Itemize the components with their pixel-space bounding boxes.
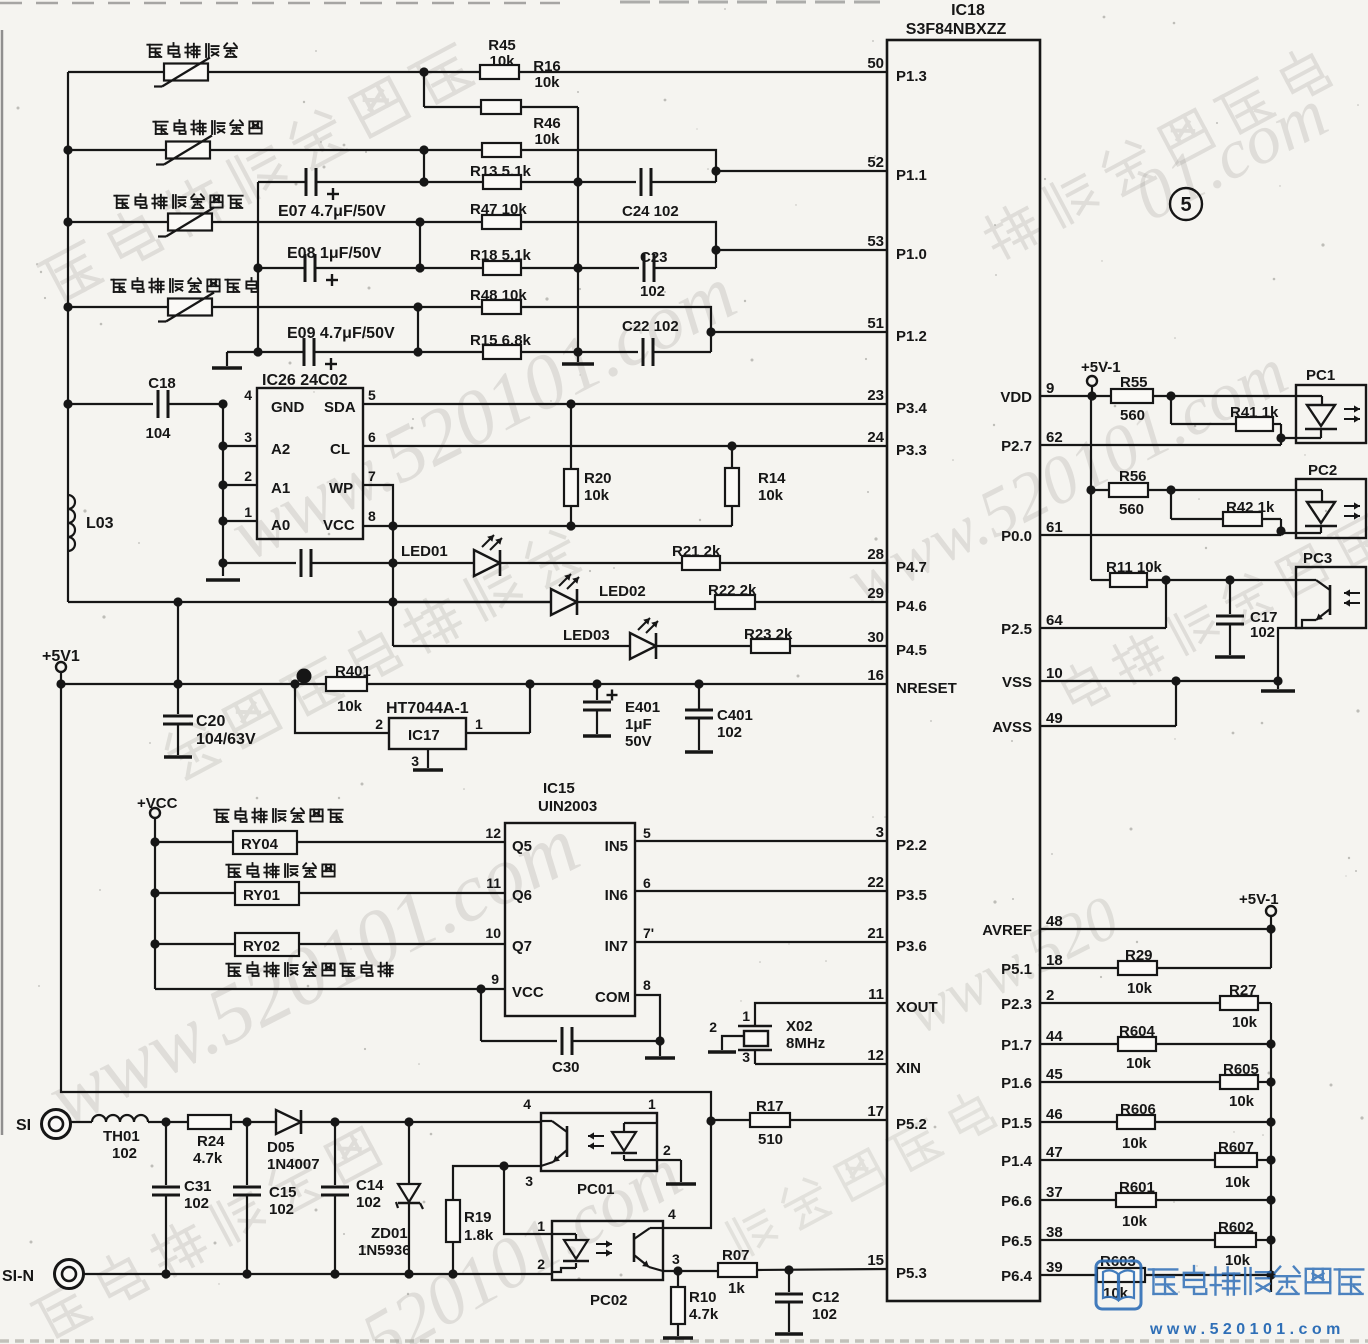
inductor L03 (68, 495, 75, 551)
svg-text:R23 2k: R23 2k (744, 626, 793, 643)
resistor R23 (656, 645, 751, 647)
svg-text:10k: 10k (1232, 1014, 1258, 1031)
PC01 LED (624, 1122, 657, 1124)
resistor R14 pullup (731, 446, 733, 468)
svg-text:C20: C20 (196, 713, 225, 730)
svg-text:11: 11 (868, 986, 884, 1003)
wire VDD row (1040, 395, 1322, 397)
svg-text:7': 7' (643, 925, 654, 941)
svg-text:PC01: PC01 (577, 1181, 615, 1198)
label sensor4 压缩机排气口温度 (111, 280, 125, 292)
PC01 phototransistor (541, 1120, 552, 1122)
svg-text:RY02: RY02 (243, 938, 280, 955)
label sensor3 冷凝器出口温度 (114, 196, 128, 208)
svg-text:R45: R45 (488, 37, 516, 54)
svg-text:R601: R601 (1119, 1179, 1155, 1196)
blue watermark logo (1096, 1261, 1141, 1309)
svg-text:10: 10 (485, 925, 501, 941)
node ZD01 top (404, 1117, 413, 1126)
svg-text:NRESET: NRESET (896, 680, 957, 697)
resistor R15 (418, 351, 483, 353)
wire VSS row (1040, 680, 1278, 682)
svg-text:IN7: IN7 (605, 938, 628, 955)
IC18 S3F84NBXZZ MCU box (887, 40, 1040, 1301)
svg-text:560: 560 (1119, 501, 1144, 518)
svg-text:LED01: LED01 (401, 543, 448, 560)
IC15 ULN2003 box (505, 823, 635, 1016)
svg-text:4: 4 (523, 1096, 531, 1112)
svg-text:UIN2003: UIN2003 (538, 798, 597, 815)
capacitor C17 102 (1229, 580, 1231, 614)
svg-text:Q7: Q7 (512, 938, 532, 955)
resistor R10 4.7k (677, 1271, 679, 1287)
crystal X02 8MHz (738, 1025, 772, 1028)
node R55 right (1166, 391, 1175, 400)
svg-text:w w w . 5 2 0 1 0 1 . c o m: w w w . 5 2 0 1 0 1 . c o m (1149, 1321, 1340, 1338)
svg-text:3: 3 (525, 1173, 533, 1189)
svg-text:VSS: VSS (1002, 674, 1032, 691)
resistor R47 (482, 215, 521, 229)
svg-text:C23: C23 (640, 249, 668, 266)
wire VCC to IC15 pin9 (155, 988, 505, 990)
wire node2 down (423, 150, 425, 182)
svg-text:1: 1 (648, 1096, 656, 1112)
svg-text:WP: WP (329, 480, 353, 497)
wire row4 (68, 306, 168, 308)
svg-text:16: 16 (867, 667, 884, 684)
wire SDA row to P3.4 (363, 403, 887, 405)
label 室外风机继电器 (214, 810, 228, 822)
resistor R17 (711, 1119, 750, 1121)
wire R22 to pin29 (755, 601, 887, 603)
wire R47 right to pin53 corner (521, 222, 716, 268)
label 换向阀继电器 (226, 865, 240, 877)
wire E-cap common vertical (257, 182, 259, 352)
svg-text:4: 4 (668, 1206, 676, 1222)
svg-text:XOUT: XOUT (896, 999, 938, 1016)
wire pin53 row (716, 249, 887, 251)
svg-text:5: 5 (643, 825, 651, 841)
svg-text:102: 102 (640, 283, 665, 300)
PC2 emission arrows (1344, 505, 1360, 507)
svg-text:P1.3: P1.3 (896, 68, 927, 85)
svg-text:TH01: TH01 (103, 1128, 140, 1145)
resistor R24 (188, 1115, 231, 1129)
svg-text:A1: A1 (271, 480, 290, 497)
svg-text:Q6: Q6 (512, 887, 532, 904)
svg-text:SI-N: SI-N (2, 1268, 34, 1285)
node R56 right (1148, 489, 1322, 491)
wire R45 to pin50 (519, 71, 887, 73)
svg-text:1: 1 (742, 1008, 750, 1024)
wire P2.5 row (1040, 627, 1166, 629)
svg-text:P1.5: P1.5 (1001, 1115, 1032, 1132)
wire R21 to pin28 (720, 562, 887, 564)
circled number 5 sheet mark (1170, 188, 1202, 220)
capacitor E401 (592, 679, 601, 688)
svg-text:P3.4: P3.4 (896, 400, 928, 417)
svg-text:C31: C31 (184, 1178, 212, 1195)
svg-text:2: 2 (244, 468, 252, 484)
svg-text:R605: R605 (1223, 1061, 1259, 1078)
svg-text:10k: 10k (534, 131, 560, 148)
wire P2.7 row (1040, 444, 1281, 446)
node PC2 cathode (1280, 519, 1282, 535)
node R17/PC01 junction (706, 1116, 715, 1125)
svg-text:P3.3: P3.3 (896, 442, 927, 459)
wire R56 row (1086, 485, 1095, 494)
svg-text:P3.5: P3.5 (896, 887, 927, 904)
svg-text:C401: C401 (717, 707, 753, 724)
svg-text:53: 53 (867, 233, 884, 250)
svg-text:P2.2: P2.2 (896, 837, 927, 854)
node row3 (415, 217, 424, 226)
svg-text:10k: 10k (758, 487, 784, 504)
svg-text:L03: L03 (86, 515, 114, 532)
svg-text:R47 10k: R47 10k (470, 201, 527, 218)
svg-text:37: 37 (1046, 1184, 1063, 1201)
svg-text:P1.2: P1.2 (896, 328, 927, 345)
svg-text:CL: CL (330, 441, 350, 458)
svg-text:3: 3 (742, 1049, 750, 1065)
svg-text:P0.0: P0.0 (1001, 528, 1032, 545)
nodes on SI-N row (161, 1269, 170, 1278)
wire P0.0 row (1040, 534, 1281, 536)
svg-text:62: 62 (1046, 429, 1063, 446)
wire +5V1 rail down-left and across bottom (61, 684, 711, 1228)
resistor R41 1k (1170, 396, 1172, 424)
blue watermark 家电维修资料网 (1149, 1269, 1178, 1293)
svg-text:30: 30 (867, 629, 884, 646)
svg-text:P5.2: P5.2 (896, 1116, 927, 1133)
wire RY04 to Q5 (297, 841, 505, 843)
svg-text:4.7k: 4.7k (193, 1150, 223, 1167)
resistor R48 (482, 300, 521, 314)
svg-text:R11 10k: R11 10k (1106, 559, 1163, 576)
svg-text:1.8k: 1.8k (464, 1227, 494, 1244)
svg-text:6: 6 (368, 429, 376, 445)
wire P6.6 row / resistor R601 (1040, 1199, 1116, 1201)
svg-text:R19: R19 (464, 1209, 492, 1226)
wire AVREF row (1040, 928, 1271, 930)
svg-text:C30: C30 (552, 1059, 580, 1076)
crystal pin2 ground (722, 1036, 744, 1050)
svg-text:P1.7: P1.7 (1001, 1037, 1032, 1054)
node pin51 (706, 327, 715, 336)
svg-text:R606: R606 (1120, 1101, 1156, 1118)
resistor R56 560 (1109, 483, 1148, 497)
svg-text:10k: 10k (584, 487, 610, 504)
capacitor C15 (246, 1122, 248, 1185)
svg-text:28: 28 (867, 546, 884, 563)
svg-text:15: 15 (867, 1252, 884, 1269)
svg-text:3: 3 (672, 1251, 680, 1267)
svg-text:11: 11 (486, 875, 501, 891)
svg-text:P3.6: P3.6 (896, 938, 927, 955)
wire R46 right to pin52 corner (521, 150, 716, 182)
wire P1.7 row / resistor R604 (1040, 1043, 1118, 1045)
svg-text:SI: SI (16, 1117, 31, 1134)
wire +5V sensor rail left (67, 72, 69, 602)
resistor R07 (663, 1270, 718, 1272)
svg-text:E08 1μF/50V: E08 1μF/50V (287, 245, 382, 262)
svg-text:10k: 10k (534, 74, 560, 91)
svg-text:PC2: PC2 (1308, 462, 1337, 479)
svg-text:9: 9 (491, 971, 499, 987)
svg-text:R607: R607 (1218, 1139, 1254, 1156)
relay RY04 (150, 837, 159, 846)
inductor TH01 (71, 1121, 92, 1123)
svg-text:D05: D05 (267, 1139, 295, 1156)
svg-text:ZD01: ZD01 (371, 1225, 408, 1242)
ground VSS (1277, 681, 1279, 689)
PC3 light arrows (1344, 592, 1360, 594)
node E07-R13 (419, 177, 428, 186)
wire x178 link (177, 602, 179, 684)
svg-text:1μF: 1μF (625, 716, 652, 733)
svg-text:21: 21 (867, 925, 884, 942)
svg-text:AVREF: AVREF (982, 922, 1032, 939)
svg-text:9: 9 (1046, 380, 1054, 397)
wire P2.3 row / resistor R27 (1040, 1002, 1220, 1004)
svg-text:PC1: PC1 (1306, 367, 1335, 384)
zener ZD01 1N5936 (408, 1122, 410, 1183)
scan edge artifacts (1, 30, 4, 1135)
svg-text:17: 17 (867, 1103, 884, 1120)
svg-text:GND: GND (271, 399, 305, 416)
label sensor1 压缩机温度 (147, 45, 161, 57)
svg-text:51: 51 (867, 315, 884, 332)
svg-text:VDD: VDD (1000, 389, 1032, 406)
resistor R46 (482, 143, 521, 157)
capacitor C401 (694, 679, 703, 688)
svg-text:IC15: IC15 (543, 780, 575, 797)
svg-text:R14: R14 (758, 470, 786, 487)
svg-text:E401: E401 (625, 699, 660, 716)
wire CL row to P3.3 (363, 445, 887, 447)
PC3 phototransistor (1296, 579, 1316, 581)
svg-text:104: 104 (145, 425, 171, 442)
svg-text:50V: 50V (625, 733, 652, 750)
svg-text:61: 61 (1046, 519, 1063, 536)
svg-text:1: 1 (475, 716, 483, 732)
svg-text:R21 2k: R21 2k (672, 543, 721, 560)
svg-text:23: 23 (867, 387, 884, 404)
svg-text:P2.5: P2.5 (1001, 621, 1032, 638)
label 功率模块电源继电器 (226, 964, 240, 976)
ground of sensor filter bus (577, 352, 579, 362)
svg-text:1N5936: 1N5936 (358, 1242, 411, 1259)
resistor R401 (326, 677, 367, 691)
wire row1 (68, 71, 164, 73)
svg-text:PC02: PC02 (590, 1292, 628, 1309)
ink blob artifact (297, 669, 312, 684)
resistor R22 (577, 601, 715, 603)
wire R23 to pin30 (790, 645, 887, 647)
svg-text:R16: R16 (533, 58, 561, 75)
wire pin51 row (711, 331, 887, 333)
capacitor E09 (258, 351, 304, 353)
svg-text:R22 2k: R22 2k (708, 582, 757, 599)
wire P5.1 row / resistor R29 (1040, 967, 1118, 969)
svg-text:49: 49 (1046, 710, 1063, 727)
svg-text:3: 3 (411, 753, 419, 769)
wire LED anode vertical (392, 526, 394, 646)
node row2 (419, 145, 428, 154)
wire D05 to PC01 (301, 1121, 541, 1123)
svg-text:52: 52 (867, 154, 884, 171)
wire P6.4 row / resistor R603 (1040, 1274, 1097, 1276)
svg-text:5: 5 (368, 387, 376, 403)
node C31 top (161, 1117, 170, 1126)
resistor R42 1k (1170, 490, 1172, 519)
svg-text:R17: R17 (756, 1098, 784, 1115)
resistor R55 560 (1111, 389, 1153, 403)
capacitor C22 (578, 351, 638, 353)
wire node1 down to R16 (423, 72, 425, 107)
svg-text:1: 1 (537, 1218, 545, 1234)
svg-text:10: 10 (1046, 665, 1063, 682)
resistor R11 10k (1091, 579, 1110, 581)
thermistor sensor 1 compressor temp (164, 64, 208, 81)
svg-text:8: 8 (643, 977, 651, 993)
svg-text:COM: COM (595, 989, 630, 1006)
capacitor C23 (578, 267, 639, 269)
thermistor sensor 3 condenser outlet temp (168, 214, 212, 231)
svg-text:P1.1: P1.1 (896, 167, 927, 184)
wire to IC17 pin2 (295, 684, 389, 733)
capacitor C24 (578, 181, 636, 183)
optocoupler PC01 box (541, 1113, 657, 1171)
svg-text:10k: 10k (1225, 1174, 1251, 1191)
svg-text:R56: R56 (1119, 468, 1147, 485)
diode D05 1N4007 (276, 1110, 301, 1134)
svg-text:24: 24 (867, 429, 884, 446)
svg-text:PC3: PC3 (1303, 550, 1332, 567)
svg-text:44: 44 (1046, 1028, 1063, 1045)
svg-text:102: 102 (356, 1194, 381, 1211)
wire COM to ground (635, 995, 660, 1056)
node R401 left (290, 679, 299, 688)
svg-text:R41 1k: R41 1k (1230, 404, 1279, 421)
svg-text:29: 29 (867, 585, 884, 602)
svg-text:HT7044A-1: HT7044A-1 (386, 700, 469, 717)
svg-text:XIN: XIN (896, 1060, 921, 1077)
svg-text:P2.3: P2.3 (1001, 996, 1032, 1013)
optocoupler PC2 box (1296, 479, 1366, 538)
wire R16 to ground bus (521, 106, 578, 108)
svg-text:R401: R401 (335, 663, 371, 680)
svg-text:LED03: LED03 (563, 627, 610, 644)
wire row y602 rail link (68, 601, 551, 603)
svg-text:1N4007: 1N4007 (267, 1156, 320, 1173)
wire row2 (68, 149, 166, 151)
svg-text:2: 2 (709, 1019, 717, 1035)
node E09-R15 (413, 347, 422, 356)
svg-text:64: 64 (1046, 612, 1063, 629)
svg-text:P5.1: P5.1 (1001, 961, 1032, 978)
svg-text:4: 4 (244, 387, 252, 403)
svg-text:R48 10k: R48 10k (470, 287, 527, 304)
svg-text:R29: R29 (1125, 947, 1153, 964)
capacitor C18 (63, 399, 72, 408)
svg-text:VCC: VCC (323, 517, 355, 534)
ground bus of IC26 (222, 404, 224, 576)
svg-text:4.7k: 4.7k (689, 1306, 719, 1323)
svg-text:3: 3 (244, 429, 252, 445)
node R07 right (784, 1265, 793, 1274)
svg-text:R13 5.1k: R13 5.1k (470, 163, 532, 180)
node pin53 (711, 245, 720, 254)
svg-text:+5V-1: +5V-1 (1081, 359, 1121, 376)
svg-text:6: 6 (643, 875, 651, 891)
svg-text:R07: R07 (722, 1247, 750, 1264)
wire VCC row of IC26 (363, 525, 732, 527)
wire IN5 to P2.2 (635, 840, 887, 842)
svg-text:LED02: LED02 (599, 583, 646, 600)
svg-text:C15: C15 (269, 1184, 297, 1201)
node C15 top (242, 1117, 251, 1126)
wire R48 right to pin51 corner (521, 307, 711, 352)
wire R15 to bus (521, 351, 578, 353)
relay RY01 (150, 888, 159, 897)
svg-text:R18 5.1k: R18 5.1k (470, 247, 532, 264)
svg-text:50: 50 (867, 55, 884, 72)
svg-text:102: 102 (184, 1195, 209, 1212)
PC1 LED (1321, 396, 1323, 405)
node C14 top (330, 1117, 339, 1126)
svg-text:Q5: Q5 (512, 838, 532, 855)
wire P6.5 row / resistor R602 (1040, 1239, 1215, 1241)
wire XIN (755, 1063, 887, 1065)
svg-text:R27: R27 (1229, 982, 1257, 999)
svg-text:560: 560 (1120, 407, 1145, 424)
node pin52 (711, 166, 720, 175)
svg-text:P1.0: P1.0 (896, 246, 927, 263)
svg-text:SDA: SDA (324, 399, 356, 416)
capacitor E07 (258, 181, 306, 183)
optocoupler PC02 box (552, 1221, 663, 1280)
node row1 (419, 67, 428, 76)
resistor R18 (420, 267, 483, 269)
svg-text:10k: 10k (1229, 1093, 1255, 1110)
svg-text:A2: A2 (271, 441, 290, 458)
svg-text:C18: C18 (148, 375, 176, 392)
svg-text:104/63V: 104/63V (196, 731, 256, 748)
svg-text:P4.6: P4.6 (896, 598, 927, 615)
wire R18 to bus (521, 267, 578, 269)
svg-text:38: 38 (1046, 1224, 1063, 1241)
svg-text:C14: C14 (356, 1177, 384, 1194)
capacitor C14 (334, 1122, 336, 1185)
svg-text:E09 4.7μF/50V: E09 4.7μF/50V (287, 325, 395, 342)
PC02 phototransistor (650, 1227, 663, 1229)
svg-text:39: 39 (1046, 1259, 1063, 1276)
resistor R20 pullup (570, 404, 572, 469)
IC17 pin3 ground (427, 749, 429, 768)
svg-text:10k: 10k (489, 53, 515, 70)
svg-text:10k: 10k (1122, 1135, 1148, 1152)
svg-text:P4.5: P4.5 (896, 642, 927, 659)
svg-text:P6.6: P6.6 (1001, 1193, 1032, 1210)
svg-text:E07 4.7μF/50V: E07 4.7μF/50V (278, 203, 386, 220)
svg-text:R42 1k: R42 1k (1226, 499, 1275, 516)
svg-text:R604: R604 (1119, 1023, 1156, 1040)
resistor R16 (424, 106, 481, 108)
svg-text:102: 102 (717, 724, 742, 741)
svg-text:1: 1 (244, 504, 252, 520)
capacitor C30 (480, 989, 482, 1041)
